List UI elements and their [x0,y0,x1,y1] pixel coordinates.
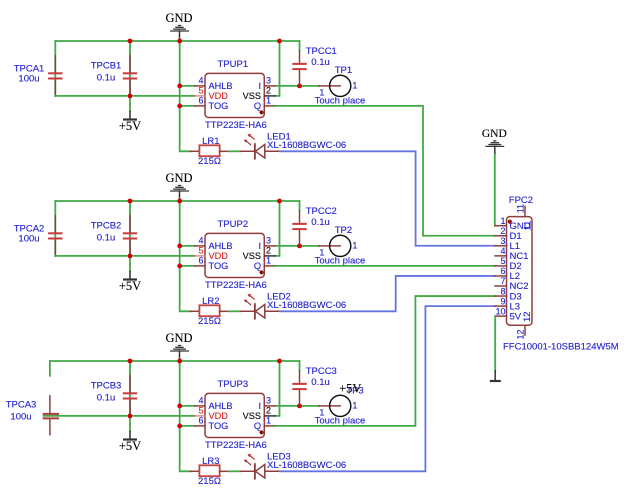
svg-text:+5V: +5V [339,381,361,395]
svg-text:TOG: TOG [209,421,229,431]
svg-text:TOG: TOG [209,101,229,111]
IC U3 TPUP3 TTP223E-HA6 touch sensor [195,379,275,451]
svg-text:1: 1 [352,241,357,252]
svg-text:6: 6 [198,96,203,106]
wire GND to FPC2 pin 1 [494,155,496,226]
junction AHLB (block 2) [177,244,182,249]
svg-text:LR1: LR1 [202,136,219,147]
power bar on 5V net [490,371,501,381]
capacitor TPCA1 100u [14,56,63,96]
junction VSS on rail (block 1) [277,39,282,44]
svg-text:TPUP3: TPUP3 [218,379,249,390]
wire VSS to GND rail (block 3) [275,361,280,416]
svg-text:5: 5 [198,406,203,416]
svg-text:XL-1608BGWC-06: XL-1608BGWC-06 [267,140,346,151]
junction AHLB (block 3) [177,404,182,409]
svg-text:Touch place: Touch place [315,416,366,427]
wire GND vertical to resistor (block 2) [180,201,190,311]
svg-text:215Ω: 215Ω [198,316,221,327]
svg-text:3: 3 [266,76,271,86]
capacitor TPCC3 0.1u [292,366,337,406]
svg-text:215Ω: 215Ω [198,476,221,487]
svg-text:FPC2: FPC2 [509,195,533,206]
svg-text:6: 6 [500,266,505,276]
svg-text:12: 12 [516,329,526,339]
capacitor TPCB1 0.1u [91,56,138,96]
svg-text:0.1u: 0.1u [311,377,330,388]
svg-text:AHLB: AHLB [209,401,233,411]
svg-text:4: 4 [500,246,505,256]
svg-text:6: 6 [198,416,203,426]
svg-text:2: 2 [266,406,271,416]
junction VSS on rail (block 3) [277,359,282,364]
wire AHLB to GND (block 3) [180,405,195,407]
junction TOG (block 2) [177,264,182,269]
svg-text:VDD: VDD [209,91,229,101]
wire net D2 (TPUP2 Q to FPC2 pin 5) [275,265,495,267]
wire I to TPCC3 and TP3 [275,405,319,407]
svg-text:4: 4 [198,236,203,246]
wire GND vertical to resistor (block 3) [180,361,190,471]
touch pad TP3 [315,385,366,426]
svg-text:VSS: VSS [243,251,261,261]
svg-text:Q: Q [254,101,261,111]
wire net L1 (LED1 to FPC2 pin 3) [280,151,495,245]
svg-text:5V: 5V [510,311,522,322]
svg-text:100u: 100u [18,74,39,85]
junction at TPCB1 bottom [128,94,133,99]
wire GND top rail (block 3) [50,360,300,362]
wire dangling stub from top rail (block 3) [49,361,51,376]
svg-text:1: 1 [266,416,271,426]
ground GND (connector) [482,128,507,155]
capacitor TPCA2 100u [14,216,63,256]
diode LED3 XL-1608BGWC-06 [241,452,347,479]
wire I to TPCC2 and TP2 [275,245,319,247]
svg-text:VSS: VSS [243,411,261,421]
wire AHLB to GND (block 2) [180,245,195,247]
svg-text:0.1u: 0.1u [311,217,330,228]
svg-text:TTP223E-HA6: TTP223E-HA6 [205,440,267,451]
svg-text:5: 5 [198,246,203,256]
junction at TPCB2 top [128,199,133,204]
svg-text:LR3: LR3 [202,456,219,467]
svg-text:1: 1 [352,81,357,92]
svg-text:1: 1 [352,401,357,412]
junction at TPCB3 bottom [128,414,133,419]
wire VSS to GND rail (block 1) [275,41,280,96]
junction TOG (block 3) [177,424,182,429]
svg-text:I: I [258,241,261,251]
svg-text:Q: Q [254,421,261,431]
wire LR1 to LED1 [229,150,240,152]
power +5V (block 3) [119,416,141,453]
svg-text:6: 6 [198,256,203,266]
svg-text:GND: GND [165,331,192,345]
svg-text:AHLB: AHLB [209,81,233,91]
svg-text:12: 12 [522,311,533,322]
svg-text:0.1u: 0.1u [311,57,330,68]
svg-text:Touch place: Touch place [315,256,366,267]
connector FPC2 FFC10001-10SBB124W5M [495,195,619,352]
junction TPCC3 bottom [297,404,302,409]
wire TPCA1 column [54,41,56,96]
diode LED1 XL-1608BGWC-06 [241,132,347,159]
svg-text:1: 1 [500,216,505,226]
svg-text:1: 1 [266,96,271,106]
svg-text:5: 5 [500,256,505,266]
svg-text:VSS: VSS [243,91,261,101]
svg-text:2: 2 [266,246,271,256]
wire TPCC3 top stub [299,361,301,371]
wire TPCC1 top stub [299,41,301,51]
wire LR3 to LED3 [229,470,240,472]
wire net D3 (TPUP3 Q to FPC2 pin 8) [275,296,495,426]
IC U1 TPUP1 TTP223E-HA6 touch sensor [195,59,275,131]
svg-text:10: 10 [495,306,505,316]
svg-text:TPUP2: TPUP2 [218,219,249,230]
svg-text:TPCA3: TPCA3 [6,400,37,411]
svg-text:GND: GND [165,11,192,25]
svg-text:Touch place: Touch place [315,96,366,107]
svg-text:+5V: +5V [119,119,141,133]
ground GND (block 2) [165,171,192,199]
svg-text:11: 11 [523,221,534,231]
touch pad TP1 [315,65,366,106]
svg-text:TP1: TP1 [335,65,352,76]
wire VDD bottom rail (block 2) [55,255,195,257]
wire TPCB3 column [129,361,131,416]
svg-text:GND: GND [482,128,507,140]
resistor LR3 215 ohm [190,456,229,487]
wire TOG to GND (block 3) [180,425,195,427]
junction at TPCB1 top [128,39,133,44]
svg-text:VDD: VDD [209,411,229,421]
junction GND stub on rail (block 3) [177,359,182,364]
wire LR2 to LED2 [229,310,240,312]
svg-text:5: 5 [198,86,203,96]
svg-text:2: 2 [500,226,505,236]
junction GND stub on rail (block 2) [177,199,182,204]
svg-text:2: 2 [266,86,271,96]
wire TPCB1 column [129,41,131,96]
svg-text:4: 4 [198,76,203,86]
svg-text:100u: 100u [10,412,31,423]
svg-text:0.1u: 0.1u [97,233,116,244]
svg-text:TP2: TP2 [335,225,352,236]
wire VDD bottom rail (block 3) [44,415,195,417]
svg-text:TPCC2: TPCC2 [306,206,337,217]
junction at TPCB3 top [128,359,133,364]
svg-text:TPCC3: TPCC3 [306,366,337,377]
junction VSS on rail (block 2) [277,199,282,204]
wire TPCA2 column [54,201,56,256]
ground GND (block 1) [165,11,192,39]
svg-text:TPCC1: TPCC1 [306,46,337,57]
svg-text:TPUP1: TPUP1 [218,59,249,70]
capacitor TPCB2 0.1u [91,216,138,256]
svg-text:3: 3 [266,396,271,406]
svg-text:+5V: +5V [119,279,141,293]
svg-text:215Ω: 215Ω [198,156,221,167]
svg-text:TPCB3: TPCB3 [91,381,122,392]
capacitor TPCB3 0.1u [91,376,138,416]
svg-text:TTP223E-HA6: TTP223E-HA6 [205,280,267,291]
svg-text:7: 7 [500,276,505,286]
svg-text:TPCB1: TPCB1 [91,61,122,72]
capacitor TPCA3 100u [6,396,59,435]
IC U2 TPUP2 TTP223E-HA6 touch sensor [195,219,275,291]
resistor LR1 215 ohm [190,136,229,167]
wire I to TPCC1 and TP1 [275,85,319,87]
svg-text:3: 3 [266,236,271,246]
svg-text:0.1u: 0.1u [97,393,116,404]
power +5V (block 1) [119,96,141,133]
resistor LR2 215 ohm [190,296,229,327]
svg-text:4: 4 [198,396,203,406]
junction GND stub on rail (block 1) [177,39,182,44]
wire TPCB2 column [129,201,131,256]
svg-text:VDD: VDD [209,251,229,261]
touch pad TP2 [315,225,366,266]
wire VSS to GND rail (block 2) [275,201,280,256]
svg-text:0.1u: 0.1u [97,73,116,84]
svg-text:I: I [258,81,261,91]
wire GND top rail (block 1) [55,40,299,42]
junction TOG (block 1) [177,104,182,109]
svg-text:AHLB: AHLB [209,241,233,251]
svg-text:8: 8 [500,286,505,296]
ground GND (block 3) [165,331,192,359]
svg-text:3: 3 [500,236,505,246]
junction AHLB (block 1) [177,84,182,89]
wire TOG to GND (block 1) [180,105,195,107]
svg-text:FFC10001-10SBB124W5M: FFC10001-10SBB124W5M [503,342,619,353]
svg-text:GND: GND [165,171,192,185]
wire GND top rail (block 2) [55,200,299,202]
svg-text:LR2: LR2 [202,296,219,307]
capacitor TPCC1 0.1u [292,46,337,86]
wire VDD bottom rail (block 1) [55,95,195,97]
junction TPCC2 bottom [297,244,302,249]
wire net D1 (TPUP1 Q to FPC2 pin 2) [275,106,495,236]
svg-text:I: I [258,401,261,411]
svg-text:TTP223E-HA6: TTP223E-HA6 [205,120,267,131]
power +5V (block 2) [119,256,141,293]
junction TPCC1 bottom [297,84,302,89]
svg-text:+5V: +5V [119,439,141,453]
svg-text:100u: 100u [18,234,39,245]
svg-text:TPCB2: TPCB2 [91,221,122,232]
wire AHLB to GND (block 1) [180,85,195,87]
svg-text:XL-1608BGWC-06: XL-1608BGWC-06 [267,300,346,311]
wire net L3 (LED3 to FPC2 pin 9) [280,306,495,471]
wire TOG to GND (block 2) [180,265,195,267]
svg-text:1: 1 [266,256,271,266]
svg-text:TOG: TOG [209,261,229,271]
diode LED2 XL-1608BGWC-06 [241,292,347,319]
wire GND vertical to resistor (block 1) [180,41,190,151]
capacitor TPCC2 0.1u [292,206,337,246]
wire 5V from FPC2 pin 10 [494,316,496,371]
svg-text:Q: Q [254,261,261,271]
junction at TPCB2 bottom [128,254,133,259]
svg-text:9: 9 [500,296,505,306]
wire TPCC2 top stub [299,201,301,211]
svg-text:XL-1608BGWC-06: XL-1608BGWC-06 [267,460,346,471]
wire net L2 (LED2 to FPC2 pin 6) [280,276,495,311]
